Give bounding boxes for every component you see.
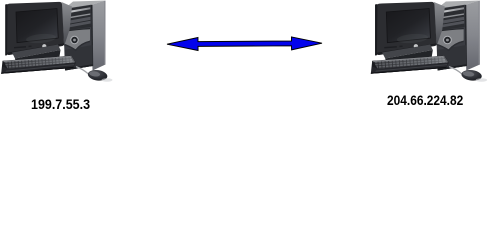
double arrow	[167, 37, 322, 51]
label 204.66.224.82	[387, 93, 463, 109]
left computer 199.7.55.3	[1, 1, 112, 82]
label 199.7.55.3	[31, 97, 90, 113]
right computer 204.66.224.82	[371, 1, 487, 82]
